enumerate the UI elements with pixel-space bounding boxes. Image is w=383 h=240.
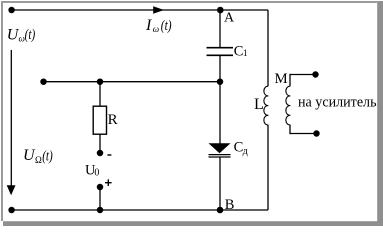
svg-text:R: R bbox=[108, 112, 118, 128]
svg-text:B: B bbox=[225, 197, 235, 213]
svg-text:Ω: Ω bbox=[35, 155, 42, 165]
svg-text:I: I bbox=[145, 17, 152, 34]
svg-text:(t): (t) bbox=[42, 148, 53, 164]
svg-text:0: 0 bbox=[94, 168, 99, 179]
svg-text:ω: ω bbox=[153, 24, 159, 34]
svg-text:1: 1 bbox=[243, 49, 248, 59]
svg-text:(t): (t) bbox=[161, 18, 172, 34]
svg-text:A: A bbox=[224, 11, 235, 26]
svg-text:M: M bbox=[275, 71, 288, 87]
svg-text:(t): (t) bbox=[25, 27, 36, 43]
svg-text:д: д bbox=[243, 146, 248, 157]
svg-text:L: L bbox=[254, 96, 264, 113]
svg-text:на усилитель: на усилитель bbox=[298, 95, 377, 111]
